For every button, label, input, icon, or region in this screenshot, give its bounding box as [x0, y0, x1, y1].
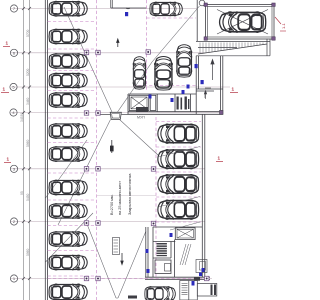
- column bottom right: [205, 276, 209, 280]
- bubble letters: [12, 6, 16, 281]
- vestibule inner line: [196, 90, 214, 92]
- ramp top edge: [196, 41, 270, 43]
- room inner wall: [208, 7, 273, 38]
- ramp direction arrow: [211, 60, 214, 81]
- car V1: [133, 57, 147, 89]
- bottom bay line: [48, 278, 210, 280]
- wall across aisle left of gate: [97, 114, 110, 116]
- car L5: [49, 92, 87, 108]
- block top wall: [128, 93, 196, 95]
- svg-text:5960: 5960: [26, 139, 30, 147]
- lower hall right inner wall: [201, 114, 203, 277]
- ramp right wall: [266, 39, 268, 56]
- stair room walls: [153, 241, 175, 243]
- car L12: [49, 284, 87, 300]
- column row axis4: [84, 111, 88, 115]
- right bay dividers: [156, 121, 201, 123]
- axis line y=278.5: [11, 278, 212, 280]
- axis line y=53: [11, 52, 205, 54]
- block bottom wall inner: [128, 111, 223, 113]
- maneuver diagonals right bays: [158, 147, 200, 231]
- corridor left wall: [195, 56, 197, 114]
- axis line y=8.5: [11, 8, 197, 10]
- small room wall: [156, 94, 158, 112]
- car V3: [176, 45, 192, 77]
- axis bubble 1: [10, 5, 17, 12]
- tech rooms bottom wall outer: [145, 279, 210, 281]
- svg-text:на 25 машино-мест: на 25 машино-мест: [118, 180, 122, 215]
- vertical bay line right column: [155, 117, 157, 278]
- top bay divider: [147, 17, 197, 19]
- faint cross-aisle line: [97, 195, 156, 197]
- car E1: [220, 11, 266, 33]
- dimension stack bottom middle: [113, 238, 120, 255]
- car B1: [145, 286, 176, 300]
- room outer wall: [206, 5, 275, 40]
- car L10: [49, 231, 87, 247]
- car L1: [49, 1, 87, 17]
- tiny dark mark bottom center: [128, 296, 137, 299]
- path from entrance down: [152, 6, 200, 62]
- svg-text:3460: 3460: [26, 97, 30, 105]
- path V left branch: [87, 224, 116, 298]
- right small room: [196, 260, 207, 273]
- svg-text:95: 95: [20, 191, 24, 195]
- svg-text:МУП: МУП: [137, 116, 145, 120]
- column row axis5: [84, 167, 88, 171]
- canopy dark ticks: [194, 277, 216, 295]
- column center dots: [86, 51, 208, 280]
- corridor right wall: [220, 56, 222, 115]
- entrance canopy: [197, 284, 217, 297]
- axis line y=168.8: [11, 168, 205, 170]
- car L8: [49, 180, 87, 196]
- path bottom stub: [116, 297, 118, 299]
- tech rooms bottom wall inner: [145, 276, 210, 278]
- svg-text:1: 1: [232, 87, 235, 92]
- corridor dividing wall: [196, 88, 223, 90]
- left inner wall: [47, 0, 49, 300]
- small door dashes in corridor: [205, 88, 211, 98]
- car L4: [49, 73, 87, 89]
- axis line y=112.5: [11, 112, 222, 114]
- ramp bottom edge: [196, 55, 270, 57]
- vertical bay line top-middle: [146, 0, 148, 91]
- elevator shaft: [129, 95, 148, 110]
- svg-text:1: 1: [218, 156, 221, 161]
- svg-text:Закрытая автостоянка: Закрытая автостоянка: [127, 173, 132, 215]
- left outer wall: [44, 0, 46, 300]
- path across left cars lower: [46, 213, 94, 262]
- narrow shaft beside elevator: [150, 95, 156, 110]
- axis bubble 3: [10, 83, 17, 90]
- top middle wall vertical stub: [110, 0, 112, 8]
- dimension line x=29.5: [29, 0, 31, 300]
- car L7: [49, 146, 87, 162]
- path across left cars upper: [46, 140, 88, 198]
- vent shaft inner: [177, 229, 193, 238]
- path gate to lower-left: [58, 120, 111, 226]
- ramp slope hypotenuse: [198, 44, 267, 54]
- vestibule slope arrow: [204, 91, 206, 100]
- landing line: [188, 281, 190, 300]
- top middle wall vertical stub inner: [112, 0, 114, 8]
- dimension texts (rotated): [20, 29, 30, 256]
- tech rooms top wall: [153, 226, 202, 228]
- slope arrow bottom: [121, 253, 123, 263]
- block bottom wall outer: [128, 113, 223, 115]
- mid room wall: [174, 240, 176, 278]
- car L6: [49, 123, 87, 139]
- car L9: [49, 203, 87, 219]
- X cross over entrance spot: [217, 10, 268, 35]
- svg-text:1: 1: [7, 157, 10, 162]
- svg-text:1-1: 1-1: [281, 22, 286, 29]
- svg-text:34530: 34530: [20, 113, 24, 122]
- door threshold dark: [194, 277, 200, 280]
- axis bubble 4: [10, 109, 17, 116]
- dark equipment in middle block: [177, 97, 190, 110]
- path entrance to gate: [118, 62, 153, 112]
- dimension tick marks: [22, 7, 31, 280]
- svg-text:В=2700 мм.: В=2700 мм.: [110, 194, 114, 215]
- svg-text:5960: 5960: [26, 248, 30, 256]
- column right mid1: [151, 167, 155, 171]
- svg-text:5450: 5450: [26, 193, 30, 201]
- axis bubble top right: [199, 0, 205, 6]
- svg-text:5200: 5200: [26, 68, 30, 76]
- car R1: [158, 123, 199, 143]
- wc room: [155, 260, 171, 274]
- svg-text:1: 1: [3, 87, 6, 92]
- axis bubble 2: [10, 49, 17, 56]
- axis line y=221.5: [11, 221, 205, 223]
- vent shaft X: [177, 229, 193, 238]
- top wall jog: [126, 7, 130, 10]
- top middle wall horizontal: [111, 7, 147, 9]
- stair flight dark treads: [157, 243, 167, 256]
- car T1: [150, 2, 182, 17]
- stair treads: [182, 284, 188, 295]
- slope arrow mid aisle: [111, 140, 113, 153]
- axis bubble 5: [10, 165, 17, 172]
- axis line y=87: [11, 86, 230, 88]
- car L11: [49, 255, 87, 271]
- slope arrow top aisle: [117, 41, 119, 48]
- axis bubble 7: [10, 275, 17, 282]
- column right mid2: [151, 221, 155, 225]
- block left wall: [127, 94, 129, 114]
- blue glyph at stair: [192, 281, 195, 286]
- right wall of top hall: [196, 0, 198, 41]
- car R2: [158, 149, 199, 169]
- column row axis7: [84, 276, 88, 280]
- axis bubble 6: [10, 218, 17, 225]
- vertical-car bay front line: [133, 85, 196, 87]
- left lobby wall: [145, 227, 147, 277]
- svg-text:5700: 5700: [26, 29, 30, 37]
- car V2: [154, 57, 173, 91]
- car R3: [158, 174, 199, 194]
- car L2: [49, 29, 87, 45]
- gate box: [110, 112, 121, 119]
- car L3: [49, 53, 87, 69]
- wc fixture: [165, 264, 171, 272]
- corner columns of room: [204, 3, 275, 40]
- stair outline: [180, 281, 198, 300]
- svg-text:1: 1: [6, 41, 9, 46]
- path gate to lower-right: [120, 120, 159, 156]
- ramp room diagonal lines: [180, 244, 191, 265]
- step corner block at y=112: [220, 110, 224, 114]
- car R4: [158, 199, 199, 219]
- ramp mid landing line: [198, 47, 237, 49]
- path from top-left spots to gate: [64, 7, 112, 112]
- lower hall right outer wall: [204, 114, 206, 277]
- column top mid: [146, 50, 150, 54]
- vent shaft crossed rect outer: [175, 228, 195, 240]
- tech rooms left wall: [152, 227, 154, 278]
- column row axis6: [84, 221, 88, 225]
- leader + red label at far right: [275, 17, 281, 24]
- column row axis2: [84, 50, 88, 54]
- ramp hatch lines: [200, 43, 263, 54]
- door leaf dark in block bottom wall: [136, 107, 148, 112]
- dimension line x=23.5: [23, 0, 25, 300]
- left bay dividers: [48, 21, 97, 23]
- elevator X: [131, 97, 147, 109]
- path V right branch: [118, 231, 146, 298]
- vertical bay axis left: [96, 0, 98, 300]
